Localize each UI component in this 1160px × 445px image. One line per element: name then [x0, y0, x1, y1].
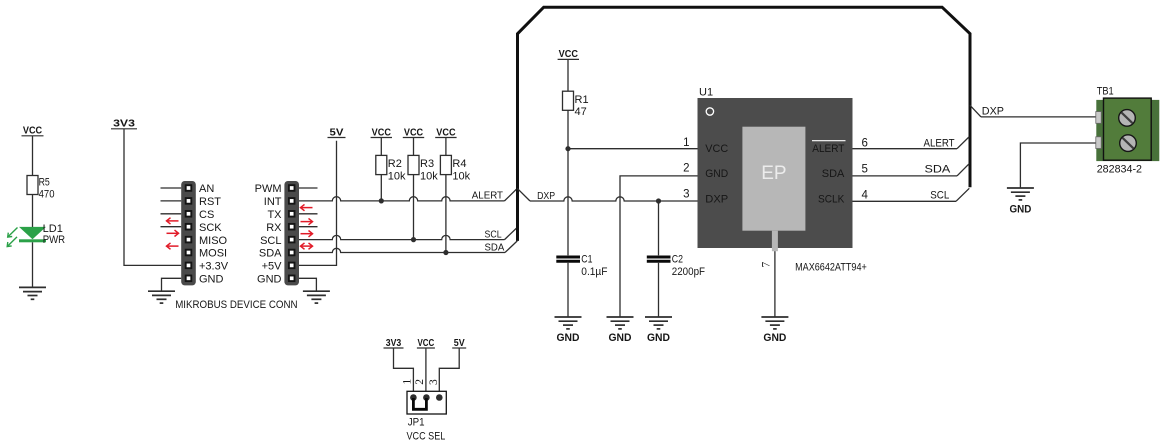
- svg-text:10k: 10k: [420, 170, 438, 182]
- wire U1 SDA pin 5: [853, 175, 958, 177]
- wire bus entry: [957, 137, 969, 149]
- svg-text:LD1: LD1: [43, 223, 63, 235]
- wire: [658, 263, 660, 317]
- JP1 pin 2: [423, 394, 430, 401]
- svg-text:1: 1: [683, 137, 689, 149]
- wire: [567, 59, 569, 91]
- IC U1 MAX6642 body: [698, 98, 853, 248]
- svg-text:2200pF: 2200pF: [672, 266, 705, 278]
- JP1 pin 3: [436, 394, 443, 401]
- wire pin stubs: [161, 187, 182, 189]
- svg-text:3V3: 3V3: [386, 338, 402, 349]
- svg-text:47: 47: [575, 106, 587, 118]
- svg-text:VCC: VCC: [372, 127, 391, 138]
- svg-text:TX: TX: [267, 209, 282, 221]
- svg-text:RST: RST: [199, 196, 221, 208]
- bus DXP/I2C loop: [518, 7, 971, 241]
- wire U1 GND pin 2 to ground: [620, 176, 698, 317]
- wire VCC node down to C1: [567, 149, 569, 256]
- ground: [19, 287, 46, 299]
- svg-text:SDA: SDA: [259, 248, 282, 260]
- svg-text:ALERT: ALERT: [924, 138, 955, 150]
- svg-text:ALERT: ALERT: [812, 143, 844, 155]
- svg-text:5V: 5V: [454, 338, 465, 349]
- svg-text:SCLK: SCLK: [818, 193, 845, 205]
- wire 5V to JP1 pin 3: [439, 348, 459, 398]
- ground: [607, 317, 634, 329]
- wire: [32, 195, 34, 228]
- wire: [124, 129, 181, 266]
- wire: [32, 136, 34, 176]
- wire +5V to 5V net: [299, 141, 337, 266]
- svg-text:SCL: SCL: [485, 229, 502, 240]
- wire bus entry: [505, 241, 517, 253]
- svg-text:4: 4: [862, 189, 869, 201]
- wire TB1 GND: [1020, 143, 1096, 188]
- svg-text:DXP: DXP: [537, 191, 555, 202]
- svg-text:2: 2: [414, 379, 426, 385]
- ground: [1007, 188, 1034, 200]
- svg-text:R2: R2: [388, 158, 402, 170]
- svg-text:SDA: SDA: [925, 164, 952, 176]
- wire bus entry: [957, 164, 969, 176]
- svg-text:VCC: VCC: [559, 49, 578, 60]
- svg-text:GND: GND: [647, 332, 670, 344]
- wire bus entry: [505, 188, 518, 201]
- wire net ALERT (INT row): [299, 197, 505, 201]
- LED LD1 PWR: [19, 227, 46, 239]
- TB1 screws: [1119, 110, 1136, 127]
- svg-text:EP: EP: [761, 163, 786, 184]
- svg-text:282834-2: 282834-2: [1097, 164, 1142, 176]
- exposed pad EP: [742, 127, 805, 231]
- svg-text:1: 1: [402, 379, 414, 385]
- resistor R5: [27, 176, 38, 195]
- wire net SCL: [299, 235, 505, 239]
- ALERT overline: [812, 140, 846, 142]
- ground: [761, 317, 788, 329]
- wire bus exit DXP: [517, 188, 530, 201]
- pin numbers: [683, 137, 868, 202]
- svg-text:GND: GND: [257, 274, 282, 286]
- wire: [32, 242, 34, 287]
- ground: [303, 291, 330, 303]
- wire bus exit DXP to TB1: [970, 105, 981, 117]
- svg-text:VCC: VCC: [404, 127, 423, 138]
- svg-text:GND: GND: [763, 332, 786, 344]
- svg-text:GND: GND: [1010, 203, 1032, 215]
- svg-text:SDA: SDA: [822, 168, 845, 180]
- capacitor C2: [647, 257, 671, 261]
- svg-text:SDA: SDA: [485, 243, 505, 254]
- red direction arrows: [167, 218, 179, 224]
- wire GND to ground: [299, 278, 316, 291]
- wire: [445, 138, 447, 156]
- svg-text:GND: GND: [199, 274, 224, 286]
- svg-text:R1: R1: [575, 94, 589, 106]
- svg-text:SCL: SCL: [930, 190, 949, 202]
- svg-text:VCC: VCC: [418, 338, 435, 349]
- svg-text:AN: AN: [199, 183, 214, 195]
- svg-text:MISO: MISO: [199, 235, 228, 247]
- svg-text:2: 2: [683, 163, 689, 175]
- TB1 pin tabs: [1096, 112, 1101, 124]
- svg-text:7: 7: [761, 262, 773, 268]
- wire net SDA: [299, 248, 505, 252]
- wire U1 SCL pin 4: [853, 200, 957, 202]
- svg-text:INT: INT: [264, 196, 282, 208]
- wire R3 to SCL net: [413, 175, 415, 240]
- svg-text:R5: R5: [39, 176, 50, 188]
- svg-text:VCC: VCC: [436, 127, 455, 138]
- svg-text:3V3: 3V3: [113, 119, 135, 130]
- svg-text:CS: CS: [199, 209, 214, 221]
- JP1 shunt 1-2: [413, 398, 426, 409]
- svg-text:RX: RX: [266, 222, 282, 234]
- svg-text:GND: GND: [705, 168, 728, 180]
- svg-text:5V: 5V: [330, 127, 344, 138]
- svg-text:10k: 10k: [452, 170, 470, 182]
- wire U1 ALERT pin 6: [853, 148, 958, 150]
- resistor R2: [376, 155, 387, 174]
- connector CN1 left header (mikrobus): [181, 181, 196, 285]
- wire DXP node to C2: [658, 201, 660, 255]
- node junction VCC: [565, 146, 570, 151]
- svg-text:3: 3: [428, 379, 440, 385]
- svg-text:MAX6642ATT94+: MAX6642ATT94+: [795, 261, 867, 273]
- ground: [645, 317, 672, 329]
- wire: [567, 263, 569, 317]
- wire: [380, 138, 382, 156]
- connector CN2 right header (mikrobus): [284, 181, 299, 285]
- pin 1 marker: [706, 108, 713, 115]
- svg-text:GND: GND: [609, 332, 632, 344]
- svg-text:MOSI: MOSI: [199, 248, 227, 260]
- resistor R1: [563, 91, 574, 110]
- wire R2 to ALERT net: [380, 175, 382, 201]
- svg-text:+3.3V: +3.3V: [199, 261, 229, 273]
- wire bus entry: [956, 188, 969, 201]
- svg-text:C2: C2: [672, 253, 683, 265]
- jumper JP1 body: [407, 391, 446, 414]
- svg-text:PWM: PWM: [255, 183, 282, 195]
- svg-text:470: 470: [39, 188, 55, 200]
- svg-text:SCK: SCK: [199, 222, 222, 234]
- svg-text:GND: GND: [557, 332, 580, 344]
- svg-text:ALERT: ALERT: [472, 190, 503, 201]
- wire R1 to U1 VCC pin 1: [567, 110, 569, 148]
- wire R4 to SDA net: [445, 175, 447, 253]
- JP1 pin 1: [410, 394, 417, 401]
- svg-text:SCL: SCL: [260, 235, 281, 247]
- svg-text:VCC SEL: VCC SEL: [407, 431, 446, 443]
- svg-text:0.1µF: 0.1µF: [581, 266, 607, 278]
- U1 pin names: [705, 143, 845, 205]
- svg-text:VCC: VCC: [705, 143, 728, 155]
- svg-text:C1: C1: [581, 253, 592, 265]
- wire VCC to JP1 pin 2: [425, 348, 427, 398]
- svg-text:JP1: JP1: [408, 416, 425, 428]
- svg-text:MIKROBUS DEVICE CONN: MIKROBUS DEVICE CONN: [175, 299, 297, 311]
- wire EP pin 7 to ground: [774, 251, 776, 317]
- capacitor C1: [556, 257, 580, 261]
- ground: [148, 291, 175, 303]
- wire pin stubs: [299, 187, 318, 189]
- wire: [413, 138, 415, 156]
- svg-text:R3: R3: [420, 158, 434, 170]
- wire net DXP to U1 pin 3: [530, 197, 698, 201]
- svg-text:R4: R4: [452, 158, 466, 170]
- svg-text:10k: 10k: [388, 170, 406, 182]
- svg-text:PWR: PWR: [43, 234, 65, 246]
- svg-text:6: 6: [862, 138, 868, 150]
- wire bus entry: [505, 227, 518, 239]
- red direction arrows: [301, 204, 313, 210]
- ground: [555, 317, 582, 329]
- svg-text:3: 3: [683, 188, 689, 200]
- resistor R3: [408, 155, 419, 174]
- wire GND to ground: [162, 278, 182, 291]
- wire 3V3 to JP1 pin 1: [394, 348, 414, 398]
- svg-text:5: 5: [862, 164, 868, 176]
- svg-text:TB1: TB1: [1097, 86, 1114, 98]
- svg-text:DXP: DXP: [982, 105, 1004, 117]
- svg-text:U1: U1: [699, 86, 713, 98]
- svg-text:+5V: +5V: [262, 261, 283, 273]
- resistor R4: [440, 155, 451, 174]
- svg-text:DXP: DXP: [705, 193, 728, 205]
- svg-text:VCC: VCC: [23, 126, 42, 137]
